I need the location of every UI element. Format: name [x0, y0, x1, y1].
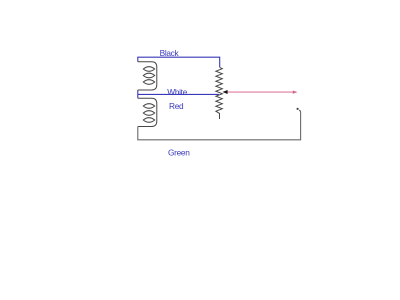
svg-text:Black: Black	[160, 48, 180, 58]
svg-text:Red: Red	[169, 101, 184, 111]
svg-text:Green: Green	[168, 147, 190, 157]
svg-text:White: White	[167, 87, 187, 97]
